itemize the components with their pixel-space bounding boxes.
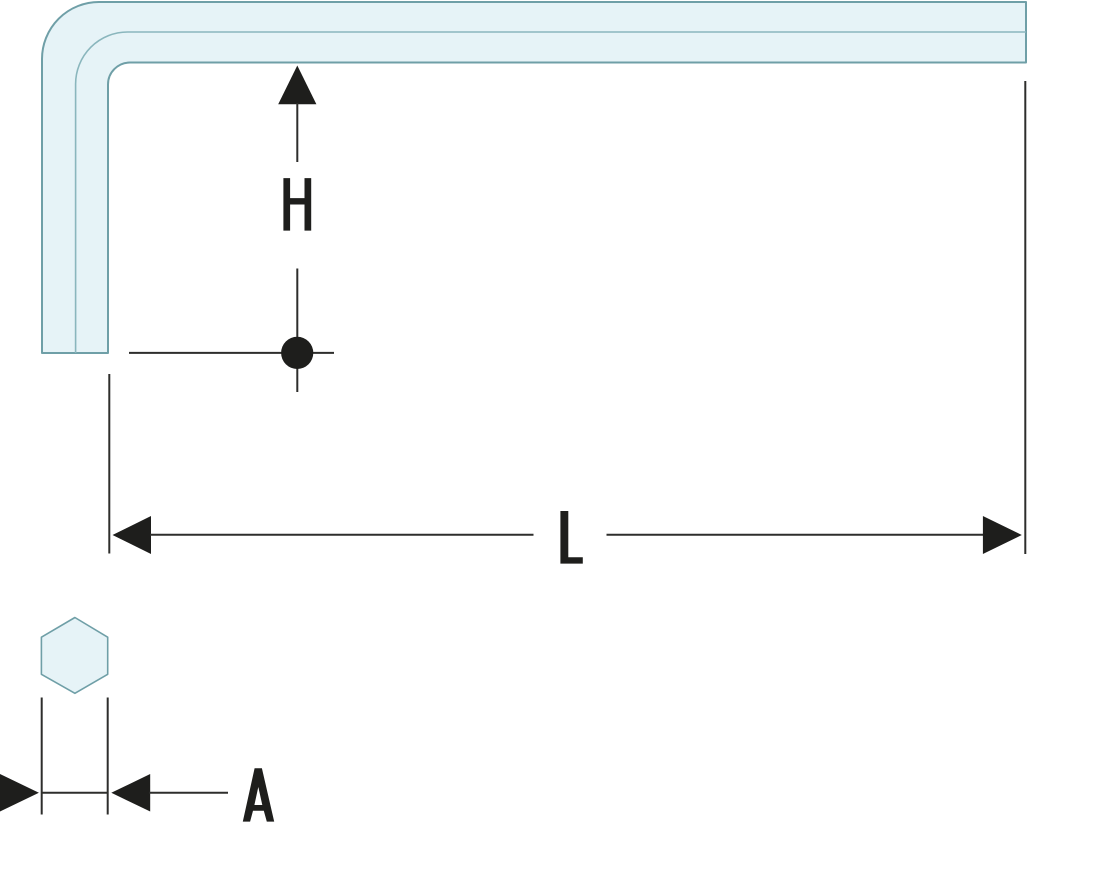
horizontal centerline through datum dot bbox=[129, 352, 334, 354]
A dimension extension line right bbox=[107, 698, 109, 815]
hexagon cross-section bbox=[41, 618, 107, 694]
dimension arrow H (arrowhead up) bbox=[278, 66, 316, 105]
L dimension arrow left bbox=[113, 516, 152, 554]
H dimension line upper segment bbox=[296, 103, 298, 162]
L dimension extension line right bbox=[1024, 81, 1026, 554]
facet line of hex key bbox=[76, 32, 1026, 353]
label A bbox=[243, 768, 274, 821]
L dimension line left segment bbox=[150, 534, 534, 536]
L dimension arrow right bbox=[983, 516, 1022, 554]
L dimension extension line left bbox=[108, 374, 110, 554]
L dimension line right segment bbox=[607, 534, 984, 536]
label L bbox=[560, 511, 582, 564]
label H bbox=[283, 178, 311, 231]
A dimension extension line left bbox=[41, 698, 43, 815]
hex key body (L-shaped side view) bbox=[42, 2, 1026, 353]
A dimension line right segment bbox=[149, 792, 228, 794]
datum dot bbox=[281, 337, 313, 369]
A dimension arrow left (pointing right) bbox=[0, 774, 39, 812]
A dimension line between extension lines bbox=[42, 792, 108, 794]
H dimension line lower segment bbox=[296, 269, 298, 393]
A dimension arrow right (pointing left) bbox=[111, 774, 150, 812]
